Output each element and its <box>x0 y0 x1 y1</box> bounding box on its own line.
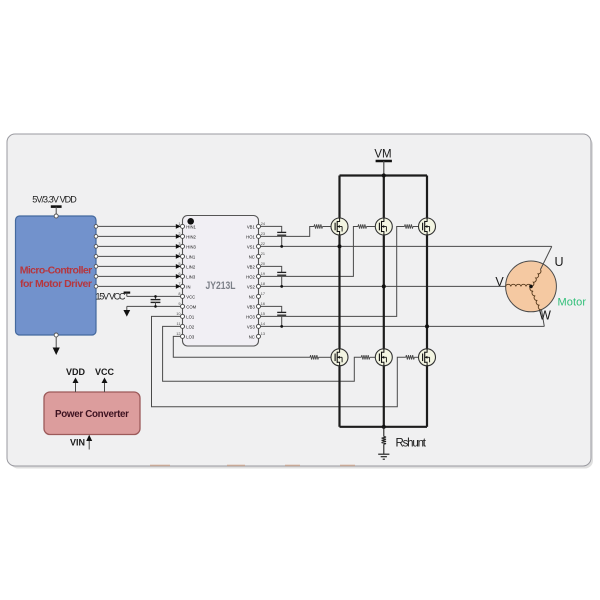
svg-text:19: 19 <box>261 272 265 276</box>
svg-text:HO1: HO1 <box>246 234 255 239</box>
svg-text:VCC: VCC <box>186 294 195 299</box>
svg-text:for Motor Driver: for Motor Driver <box>20 278 92 290</box>
svg-text:VCC: VCC <box>95 367 115 377</box>
svg-text:5V/3.3V VDD: 5V/3.3V VDD <box>32 195 77 205</box>
svg-text:LIN3: LIN3 <box>186 274 196 279</box>
svg-text:HO2: HO2 <box>246 274 255 279</box>
svg-text:HIN2: HIN2 <box>186 234 196 239</box>
svg-text:LO1: LO1 <box>186 314 195 319</box>
svg-text:6: 6 <box>178 272 180 276</box>
svg-text:9: 9 <box>178 302 180 306</box>
svg-text:15V VCC: 15V VCC <box>96 292 127 302</box>
svg-text:LO3: LO3 <box>186 334 195 339</box>
svg-text:Motor: Motor <box>558 297 587 309</box>
svg-text:7: 7 <box>178 282 180 286</box>
svg-text:1: 1 <box>178 222 180 226</box>
svg-text:VS3: VS3 <box>247 324 256 329</box>
svg-text:18: 18 <box>261 282 265 286</box>
svg-text:24: 24 <box>261 222 265 226</box>
svg-text:21: 21 <box>261 252 265 256</box>
svg-text:VS2: VS2 <box>247 284 256 289</box>
svg-text:NC: NC <box>249 254 255 259</box>
svg-text:HIN1: HIN1 <box>186 224 196 229</box>
svg-text:14: 14 <box>261 322 265 326</box>
svg-text:JY213L: JY213L <box>206 280 236 292</box>
svg-text:4: 4 <box>178 252 180 256</box>
svg-text:13: 13 <box>261 332 265 336</box>
svg-text:NC: NC <box>249 294 255 299</box>
svg-text:22: 22 <box>261 242 265 246</box>
svg-text:HIN3: HIN3 <box>186 244 196 249</box>
svg-text:VB3: VB3 <box>247 304 256 309</box>
svg-text:10: 10 <box>176 312 180 316</box>
svg-text:17: 17 <box>261 292 265 296</box>
svg-text:LIN2: LIN2 <box>186 264 196 269</box>
svg-text:COM: COM <box>186 304 196 309</box>
svg-text:2: 2 <box>178 232 180 236</box>
svg-text:NC: NC <box>249 334 255 339</box>
svg-text:W: W <box>539 309 551 323</box>
svg-text:V: V <box>495 275 504 289</box>
svg-text:Micro-Controller: Micro-Controller <box>20 265 93 277</box>
svg-text:Rshunt: Rshunt <box>396 438 427 450</box>
svg-text:U: U <box>554 255 563 269</box>
svg-text:23: 23 <box>261 232 265 236</box>
svg-text:VM: VM <box>374 149 391 161</box>
svg-text:20: 20 <box>261 262 265 266</box>
svg-text:15: 15 <box>261 312 265 316</box>
svg-text:3: 3 <box>178 242 180 246</box>
svg-text:LO2: LO2 <box>186 324 195 329</box>
svg-text:IN: IN <box>186 284 190 289</box>
svg-text:16: 16 <box>261 302 265 306</box>
svg-text:Power Converter: Power Converter <box>55 409 129 420</box>
svg-text:VDD: VDD <box>66 367 86 377</box>
svg-text:5: 5 <box>178 262 180 266</box>
svg-text:8: 8 <box>178 292 180 296</box>
svg-text:VIN: VIN <box>70 438 85 448</box>
svg-text:12: 12 <box>176 332 180 336</box>
svg-text:LIN1: LIN1 <box>186 254 196 259</box>
svg-text:HO3: HO3 <box>246 314 255 319</box>
svg-text:VB2: VB2 <box>247 264 256 269</box>
svg-text:VS1: VS1 <box>247 244 256 249</box>
svg-text:11: 11 <box>177 322 181 326</box>
svg-text:VB1: VB1 <box>247 224 256 229</box>
